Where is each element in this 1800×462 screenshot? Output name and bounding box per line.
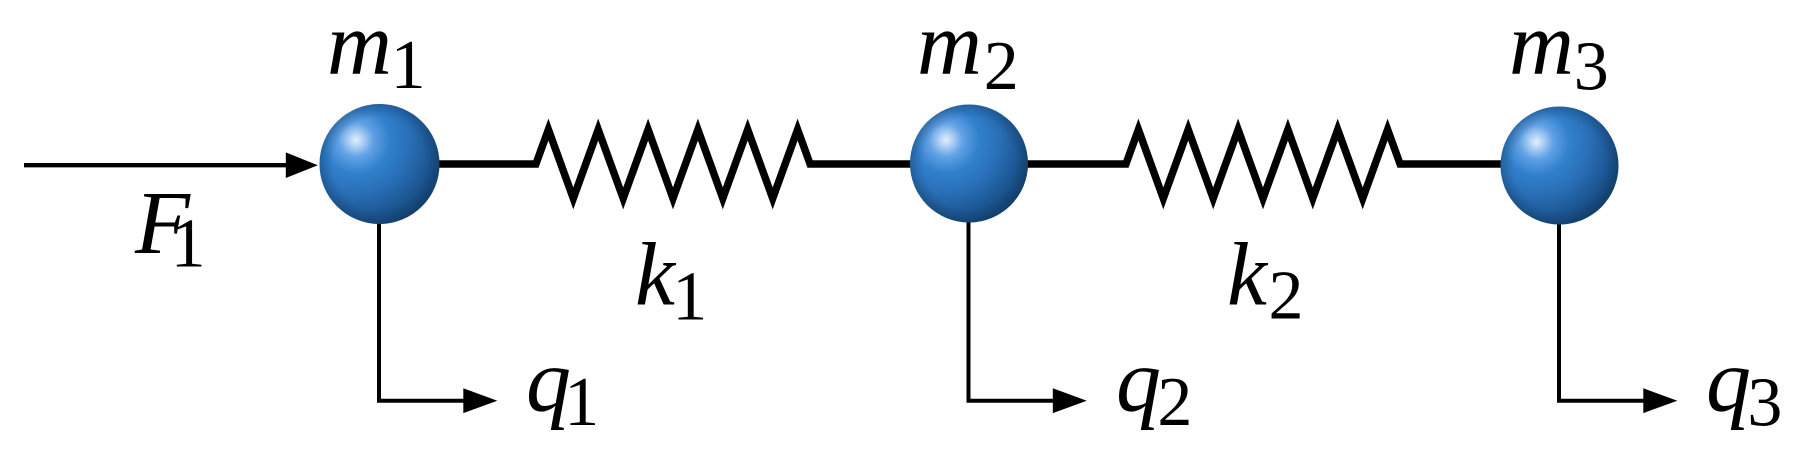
svg-text:m: m <box>917 0 982 94</box>
svg-text:k: k <box>635 226 677 325</box>
svg-text:k: k <box>1227 226 1269 325</box>
svg-text:2: 2 <box>1269 258 1304 335</box>
svg-text:2: 2 <box>984 28 1019 105</box>
svg-text:m: m <box>327 0 392 94</box>
svg-text:3: 3 <box>1747 365 1782 442</box>
svg-text:1: 1 <box>564 364 599 441</box>
svg-text:2: 2 <box>1157 364 1192 441</box>
svg-text:1: 1 <box>171 206 206 283</box>
svg-text:m: m <box>1509 0 1574 94</box>
svg-text:q: q <box>1116 332 1161 431</box>
svg-text:3: 3 <box>1574 29 1609 106</box>
svg-text:1: 1 <box>672 258 707 335</box>
svg-text:1: 1 <box>391 27 426 104</box>
svg-text:q: q <box>1706 332 1751 431</box>
